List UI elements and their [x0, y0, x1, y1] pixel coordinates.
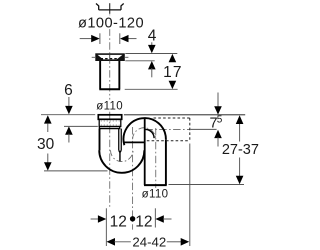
- svg-text:5: 5: [217, 115, 223, 126]
- svg-text:24-42: 24-42: [132, 235, 166, 250]
- dim 6 lower arrow: [65, 126, 73, 134]
- inlet dip tube taper tip: [119, 150, 122, 161]
- centerline outlet axis: [155, 128, 157, 190]
- svg-text:ø110: ø110: [142, 189, 169, 201]
- dim 30 upper arrow: [44, 115, 52, 123]
- outlet seam vertical: [144, 119, 146, 185]
- midpoint dot: [130, 216, 135, 221]
- top bend inner arc: [145, 129, 154, 138]
- inlet dip tube wall inner: [118, 129, 120, 151]
- socket lip: [99, 127, 119, 129]
- centerline top-bend arc: [133, 128, 156, 140]
- centerline alt outlet horizontal: [145, 128, 189, 130]
- dim ø100-120 left arrow: [80, 38, 93, 40]
- label ø110 outlet: [140, 188, 172, 199]
- trap joint line: [123, 141, 144, 143]
- dim 24-42 left arrow: [107, 238, 116, 246]
- svg-text:ø100-120: ø100-120: [78, 15, 144, 31]
- dim 24-42 right arrow: [167, 241, 182, 243]
- flange tube right wall: [118, 61, 120, 89]
- inlet dip tube wall outer: [120, 129, 122, 151]
- label ø110 inlet: [94, 100, 126, 111]
- dim 17 upper arrow: [169, 54, 177, 62]
- extension line A socket top: [41, 114, 95, 116]
- outlet bottom edge: [144, 184, 167, 186]
- tick inlet side: [105, 208, 107, 246]
- bracket center tick: [109, 3, 111, 14]
- top bend outer arc: [124, 118, 166, 145]
- dim 12-12 left outside arrow: [91, 218, 99, 220]
- dim 7.5 lower arrow: [214, 130, 222, 138]
- dim 17 lower arrow: [169, 81, 177, 89]
- centerline riser axis: [132, 127, 134, 230]
- label ø100-120: [77, 15, 146, 29]
- socket ring body: [99, 119, 121, 126]
- dim 27-37 lower arrow: [239, 158, 241, 177]
- extension line L3 tube bottom: [125, 88, 178, 90]
- flange tube left wall: [99, 61, 101, 89]
- flange rim: [95, 53, 125, 61]
- svg-text:ø110: ø110: [96, 100, 123, 112]
- tick outlet side: [154, 208, 156, 227]
- flange rim centerline: [109, 53, 111, 61]
- inlet pipe left wall: [99, 129, 101, 151]
- extension line L1 rim top: [125, 53, 177, 55]
- extension line L2 rim bottom: [125, 60, 154, 62]
- dim ø100-120 right tick: [119, 33, 121, 44]
- svg-text:27-37: 27-37: [222, 142, 259, 158]
- extension line B socket bottom: [64, 125, 98, 127]
- svg-text:6: 6: [64, 82, 73, 99]
- dim 27-37 upper arrow: [236, 115, 244, 124]
- dim 4 upper arrow: [151, 42, 153, 46]
- flange funnel interior: [98, 55, 123, 60]
- alt outlet dashed box top: [154, 117, 190, 119]
- dim 30 lower arrow: [47, 154, 49, 163]
- extension line C trap bottom: [44, 170, 108, 172]
- dim 12-12 right outside arrow: [155, 215, 163, 223]
- dim ø100-120 left tick: [99, 33, 101, 44]
- centerline inlet axis: [109, 15, 111, 208]
- centerline U-bend arc: [111, 150, 134, 161]
- extension line F: [169, 184, 245, 186]
- dim ø100-120 right arrow: [128, 38, 137, 40]
- svg-text:12: 12: [110, 213, 127, 230]
- bracket clamp symbol top: [96, 4, 124, 10]
- svg-text:17: 17: [163, 64, 183, 81]
- flange hidden line: [101, 58, 120, 60]
- svg-text:30: 30: [37, 136, 55, 153]
- extension line alt socket end: [189, 144, 191, 247]
- alt outlet dashed box right edge: [189, 118, 191, 142]
- alt outlet dashed box bottom: [147, 140, 190, 142]
- outlet right wall: [165, 139, 167, 185]
- flange tube bottom edge: [99, 88, 120, 90]
- socket ring texture: [101, 120, 120, 122]
- socket top band: [98, 115, 121, 120]
- dim 7.5 upper arrow: [217, 93, 219, 108]
- extension line D: [124, 114, 245, 116]
- svg-text:4: 4: [148, 27, 157, 44]
- U-bend outer arc: [99, 150, 144, 173]
- dim 4 lower arrow: [148, 61, 156, 69]
- svg-text:12: 12: [135, 213, 152, 230]
- dim 6 upper arrow: [68, 97, 70, 106]
- extension line E: [190, 128, 216, 130]
- flange centerline stubs: [92, 56, 95, 58]
